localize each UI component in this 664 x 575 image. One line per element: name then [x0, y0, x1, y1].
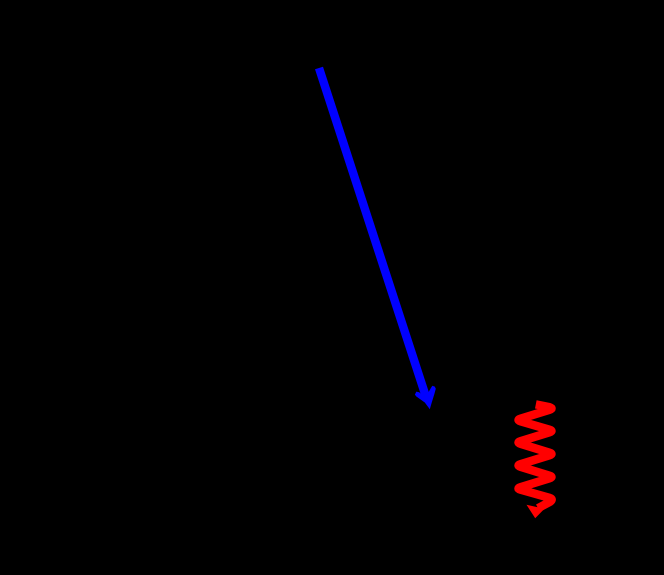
blue arrow (electron transition): shaft — [319, 68, 427, 400]
red wavy photon arrow: squiggle — [518, 404, 551, 508]
red photon arrowhead — [527, 505, 545, 518]
blue arrow head — [415, 386, 436, 410]
